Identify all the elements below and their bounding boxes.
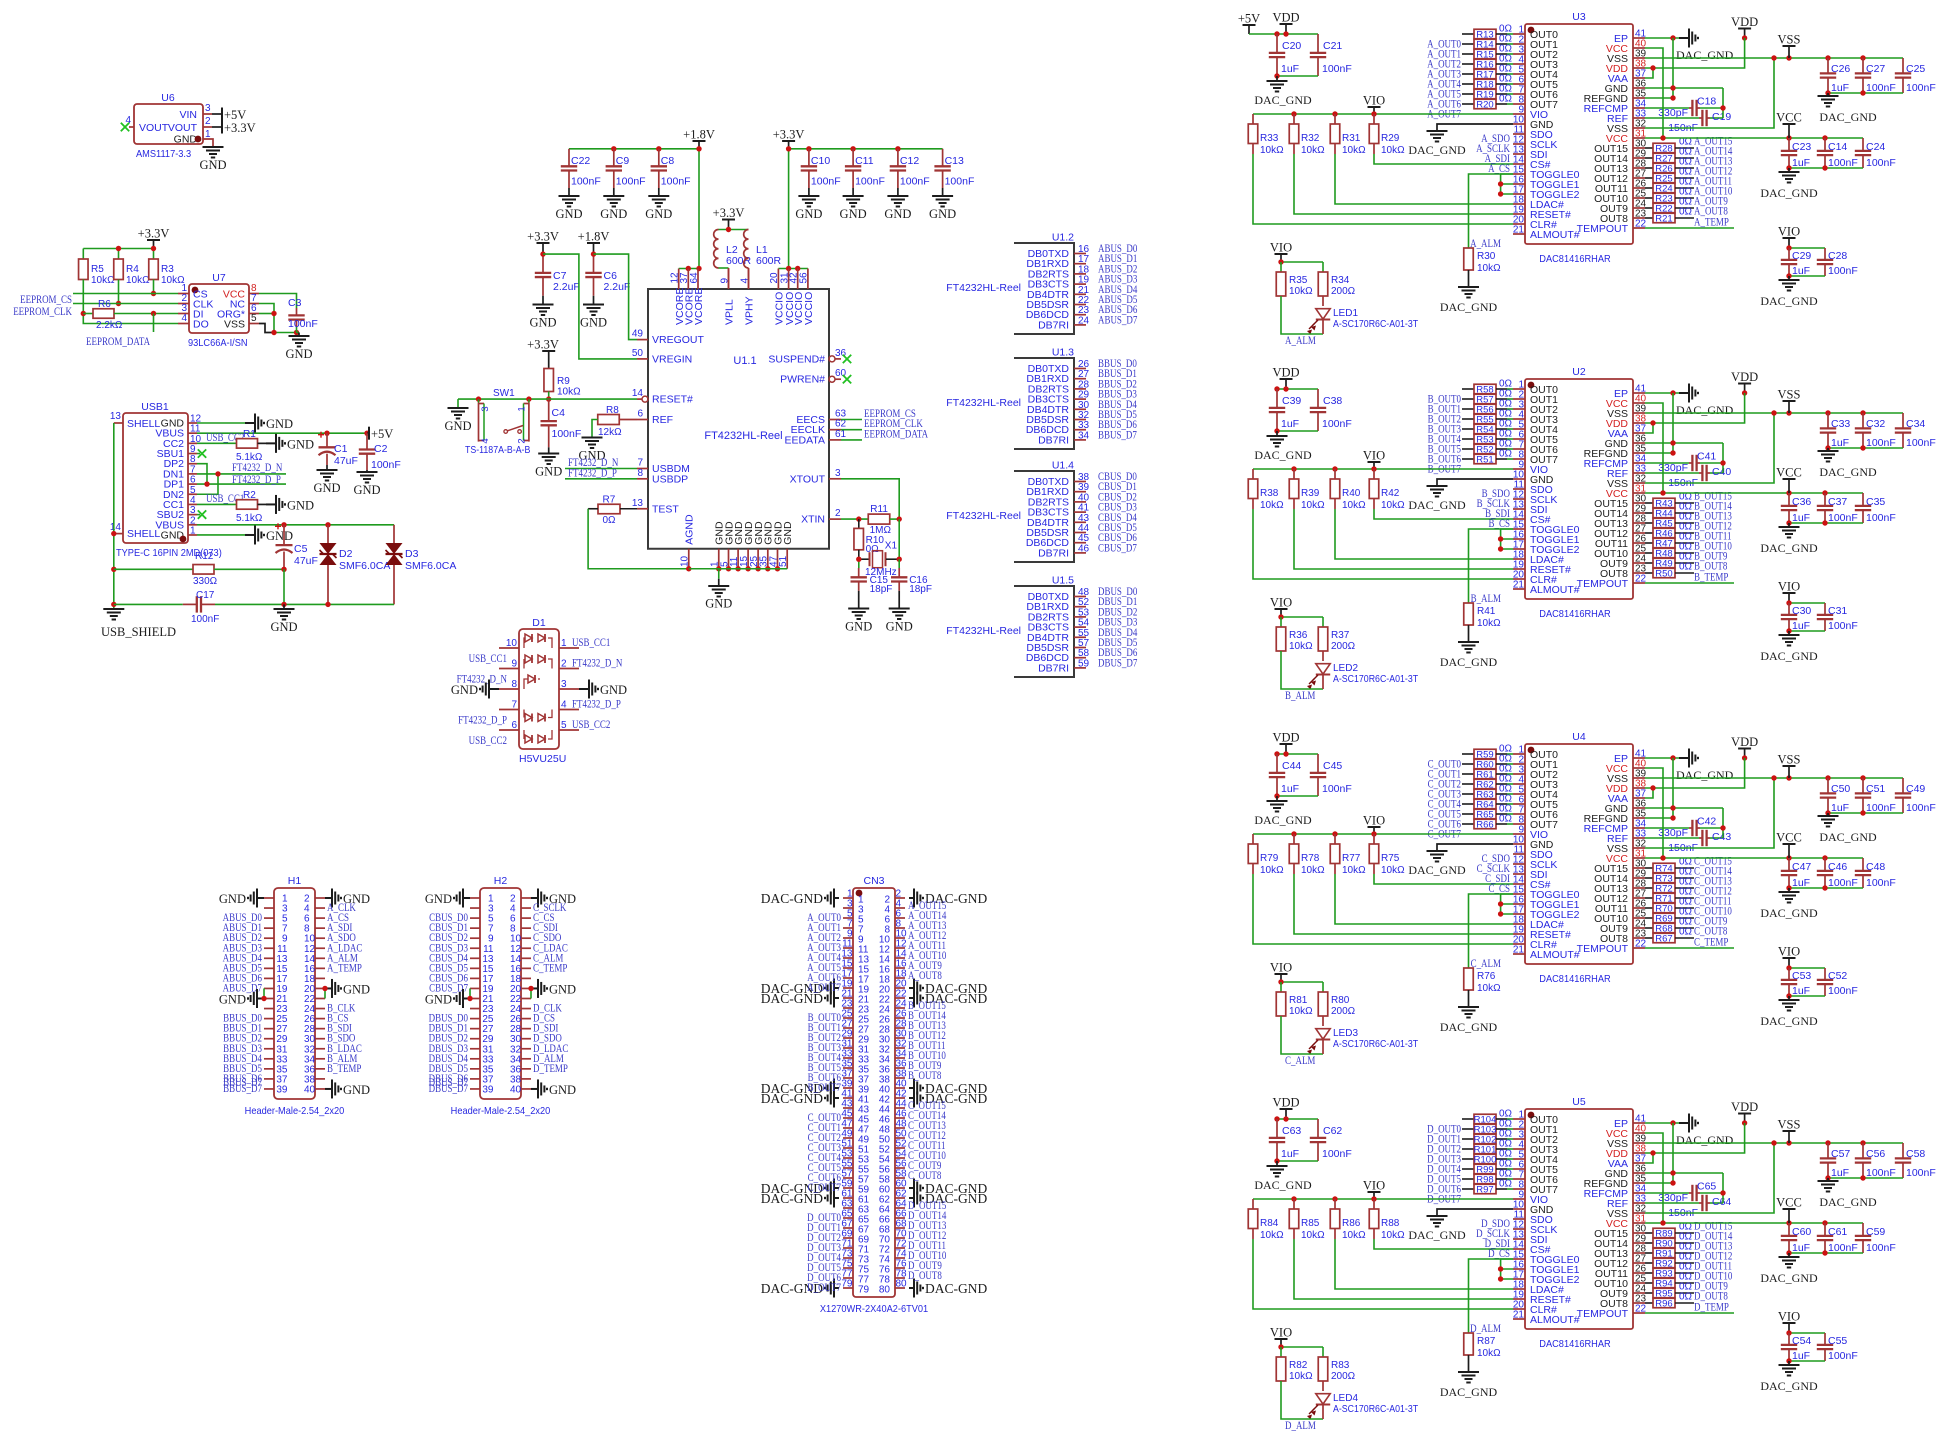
svg-text:GND: GND [929,207,956,221]
svg-text:DAC_GND: DAC_GND [1760,1014,1818,1028]
svg-text:DBUS_D7: DBUS_D7 [429,1077,469,1089]
svg-text:USB_CC1: USB_CC1 [572,637,611,649]
pin 15 GND bottom [739,521,755,569]
resistor R68 0ohm [1645,917,1694,935]
ground GND below U1.1 [708,586,729,597]
svg-text:DAC81416RHAR: DAC81416RHAR [1539,1338,1611,1350]
svg-text:DB7RI: DB7RI [1038,662,1069,674]
ground DAC_GND under vss caps [1818,96,1839,107]
wire led bottom [1281,1016,1323,1054]
svg-text:VSS: VSS [1778,33,1801,47]
svg-text:10kΩ: 10kΩ [1381,1230,1405,1241]
svg-text:EEDATA: EEDATA [785,434,825,446]
svg-text:U6: U6 [161,92,175,104]
resistor R46 0ohm [1645,522,1694,540]
capacitor C12 [890,149,930,196]
capacitor C37 100nF [1817,493,1858,524]
svg-text:LED2: LED2 [1333,663,1358,674]
wire R87 to gnd [1468,1355,1470,1372]
svg-text:22: 22 [1635,1304,1647,1315]
ground GND under C16 [889,609,910,620]
resistor R98 0ohm [1462,1169,1513,1186]
resistor R82 10k [1276,1347,1313,1382]
connector H2 Header-Male-2.54_2x20 [451,875,551,1117]
wire refcap vertical [1722,808,1724,838]
svg-text:GND: GND [549,1083,576,1097]
svg-text:C28: C28 [1828,250,1847,262]
wire VCC8 to C3 [259,294,297,309]
capacitor C5 polarized [275,523,318,569]
pin 49 VREGOUT left [632,329,705,347]
svg-text:GND: GND [535,465,562,479]
resistor R7 0ohm [598,495,620,527]
svg-text:100nF: 100nF [1322,783,1352,795]
wire bottom gnd rail [284,603,394,605]
ground flag SW1 [457,399,459,408]
ground GND at C3 [289,336,310,347]
wire vcc caps bottom [1789,522,1863,524]
svg-text:C25: C25 [1906,63,1925,75]
svg-text:4: 4 [480,438,491,443]
IC U3 DAC81416RHAR [1513,11,1647,265]
svg-text:59: 59 [1078,658,1090,669]
svg-text:DAC_GND: DAC_GND [1760,906,1818,920]
resistor R97 0ohm [1462,1179,1513,1196]
svg-text:GND: GND [266,417,293,431]
capacitor C4 [541,399,582,453]
ground GND under C7 [533,305,554,316]
svg-text:VIO: VIO [1363,94,1385,108]
power flag VIO right [1783,237,1796,239]
svg-text:C20: C20 [1282,40,1301,52]
wire VDD38/VAA [1645,393,1745,423]
capacitor C3 [288,297,318,330]
svg-text:1uF: 1uF [1281,1148,1299,1160]
wire R77 to pin [1334,864,1336,875]
svg-text:C59: C59 [1866,1226,1885,1238]
ground DAC_GND under vss caps [1818,816,1839,827]
svg-text:C33: C33 [1831,418,1850,430]
svg-text:+1.8V: +1.8V [578,230,610,244]
svg-text:FT4232HL-Reel: FT4232HL-Reel [704,430,782,442]
resistor R13 0ohm [1462,24,1513,41]
wire EECLK [841,429,862,431]
IC U1.4 FT4232HL section [946,460,1137,563]
capacitor C43 150nF [1645,830,1731,854]
wire VCCIO rail [778,268,808,270]
wire CS to R [1469,529,1514,603]
IC U1.5 FT4232HL section [946,575,1137,678]
svg-text:GND: GND [886,620,913,634]
svg-text:GND: GND [705,597,732,611]
svg-text:GND: GND [555,207,582,221]
svg-text:2.2kΩ: 2.2kΩ [96,320,123,331]
wire R7 to gnd rail [588,508,598,510]
wire to C16 [898,559,900,568]
svg-text:D_ALM: D_ALM [1470,1323,1501,1335]
capacitor C50 1uF [1820,778,1851,814]
svg-text:DAC_GND: DAC_GND [1440,1385,1498,1399]
svg-text:DAC_GND: DAC_GND [1408,498,1466,512]
resistor R87 10k [1464,1333,1501,1359]
ground GND under C8 [648,196,669,207]
capacitor C28 100nF [1817,248,1858,277]
resistor R56 0ohm [1462,399,1513,416]
svg-text:R31: R31 [1342,133,1361,144]
resistor R75 10k pullup [1369,834,1405,876]
resistor R78 10k pullup [1289,834,1325,876]
svg-text:10kΩ: 10kΩ [1477,618,1501,629]
svg-text:5: 5 [190,485,196,496]
resistor R88 10k pullup [1369,1199,1405,1241]
wire vss caps bottom [1828,447,1903,449]
svg-text:C47: C47 [1792,861,1811,873]
wire VSS rail [1645,777,1903,779]
capacitor C52 100nF [1817,968,1858,997]
ground flag DAC-GND CN3 right row 11 [909,989,923,1008]
capacitor C6 2.2uF [585,254,630,304]
svg-text:C63: C63 [1282,1125,1301,1137]
resistor R44 0ohm [1645,502,1694,520]
ground DAC_GND under vio caps [1779,1000,1800,1011]
no-connect X pin4 [121,123,129,131]
svg-text:3: 3 [190,505,196,516]
pin 14 RESET# left [632,388,693,406]
svg-text:R21: R21 [1655,214,1672,225]
wire EP to DAC_GND [1645,757,1679,759]
svg-text:U4: U4 [1572,731,1586,743]
ground DAC_GND under vio caps [1779,280,1800,291]
svg-text:VDD: VDD [1731,15,1758,29]
wire VCC net [1645,1133,1663,1223]
svg-text:R51: R51 [1476,455,1493,466]
svg-text:VIN: VIN [179,109,197,121]
ground flag GND H2 right row 20 [531,1079,547,1098]
svg-text:VDD: VDD [1731,370,1758,384]
svg-text:DAC_GND: DAC_GND [1440,300,1498,314]
svg-text:100nF: 100nF [616,176,646,188]
LED LED1 A-SC170R6C-A01-3T [1307,296,1418,335]
svg-text:1uF: 1uF [1281,63,1299,75]
resistor R64 0ohm [1462,794,1513,811]
svg-text:VIO: VIO [1363,814,1385,828]
wire R12 to C5 node [214,568,284,570]
ground GND under C11 [843,196,864,207]
svg-text:VIO: VIO [1363,1179,1385,1193]
ground flag GND H1 right row 10 [325,979,341,998]
svg-text:22: 22 [1635,939,1647,950]
wire vss caps bottom [1828,812,1903,814]
svg-text:DAC_GND: DAC_GND [1440,655,1498,669]
net label EEPROM_DATA [153,314,155,333]
svg-text:GND: GND [425,993,452,1007]
resistor R83 200ohm [1318,1347,1355,1382]
svg-text:100nF: 100nF [1828,265,1858,277]
power flag VDD right [1738,748,1751,750]
ground GND under C15 [848,609,869,620]
LED LED4 A-SC170R6C-A01-3T [1307,1381,1418,1420]
svg-text:C60: C60 [1792,1226,1811,1238]
ground flag GND H2 left row 11 [454,989,470,1008]
ground DAC_GND under vcc caps [1779,892,1800,903]
power flag VIO right [1783,592,1796,594]
svg-text:C1: C1 [334,443,348,455]
wire VIO rail to pin9 [1253,833,1513,835]
svg-text:TEMPOUT: TEMPOUT [1577,1308,1629,1320]
capacitor C27 100nF [1855,58,1896,94]
resistor R43 0ohm [1645,492,1694,510]
svg-text:3: 3 [480,406,491,411]
wire CS to R [1469,1259,1514,1333]
ground DAC_GND under vcc caps [1779,1257,1800,1268]
resistor R29 10k pullup [1369,114,1405,156]
svg-text:R42: R42 [1381,488,1400,499]
capacitor C57 1uF [1820,1143,1851,1179]
svg-text:C55: C55 [1828,1335,1847,1347]
svg-text:AGND: AGND [684,514,696,545]
svg-text:C34: C34 [1906,418,1925,430]
svg-text:FT4232_D_N: FT4232_D_N [232,462,283,474]
svg-text:10kΩ: 10kΩ [1289,1006,1313,1017]
wire gnd ties H1 [324,988,326,998]
svg-text:D1: D1 [532,617,546,629]
power flag +5V [1243,24,1256,26]
wire VCC rail [1645,137,1863,139]
svg-text:GND: GND [529,316,556,330]
svg-text:GND: GND [270,620,297,634]
svg-text:VSS: VSS [224,319,245,331]
wire R40 to pin [1334,499,1336,510]
svg-text:100nF: 100nF [1866,1242,1896,1254]
svg-text:C12: C12 [900,155,919,167]
wire EECS [841,419,862,421]
no-connect X SBU1 [197,453,200,455]
resistor R2 [197,490,263,524]
svg-text:R40: R40 [1342,488,1361,499]
resistor R16 0ohm [1462,54,1513,71]
svg-text:R8: R8 [606,405,619,416]
svg-text:21: 21 [1513,225,1525,236]
svg-text:C_ALM: C_ALM [1471,958,1501,970]
power flag VDD right [1738,383,1751,385]
svg-text:FT4232_D_P: FT4232_D_P [458,715,507,727]
capacitor C35 100nF [1855,493,1896,524]
svg-text:13: 13 [632,498,644,509]
wire VCC rail [1645,857,1863,859]
resistor R24 0ohm [1645,177,1694,195]
resistor R69 0ohm [1645,907,1694,925]
svg-text:GND: GND [425,892,452,906]
capacitor C60 1uF [1781,1223,1812,1254]
svg-text:C65: C65 [1697,1181,1716,1193]
pin 1 GND bottom [710,521,726,569]
svg-text:3: 3 [835,468,841,479]
svg-text:4: 4 [190,495,196,506]
ground flag DAC-GND CN3 left row 31 [825,1189,839,1208]
svg-text:VDD: VDD [1272,1096,1299,1110]
IC U6 AMS1117-3.3 [125,92,211,160]
capacitor C2 [359,433,401,471]
svg-text:C10: C10 [811,155,830,167]
svg-text:40: 40 [510,1084,522,1095]
svg-text:93LC66A-I/SN: 93LC66A-I/SN [188,337,248,349]
svg-text:C48: C48 [1866,861,1885,873]
wire to C15 [858,559,860,568]
svg-text:1: 1 [561,638,567,649]
svg-text:2: 2 [561,659,567,670]
resistor R3 [149,259,185,286]
wire VDD38/VAA [1645,758,1745,788]
svg-text:DAC_GND: DAC_GND [1760,1379,1818,1393]
svg-text:GND: GND [840,207,867,221]
svg-text:VIO: VIO [1270,241,1292,255]
wire R31 to pin [1334,144,1336,155]
resistor R1 [197,429,263,463]
power flag VDD right [1738,1113,1751,1115]
svg-text:DB7RI: DB7RI [1038,434,1069,446]
svg-text:C49: C49 [1906,783,1925,795]
svg-text:R36: R36 [1289,630,1308,641]
svg-text:200Ω: 200Ω [1331,641,1356,652]
power flag VDD topleft [1280,1108,1293,1110]
svg-text:R50: R50 [1655,569,1672,580]
svg-text:GND: GND [353,483,380,497]
pin 64 VCORE top [689,269,705,326]
svg-text:100nF: 100nF [811,176,841,188]
capacitor C23 1uF [1781,138,1812,169]
ground flag DAC-GND CN3 left row 1 [825,889,839,908]
svg-text:R3: R3 [161,264,174,275]
svg-text:VPLL: VPLL [724,299,736,325]
svg-text:FT4232HL-Reel: FT4232HL-Reel [946,397,1021,409]
resistor R45 0ohm [1645,512,1694,530]
wire DI row [114,313,178,315]
resistor R50 0ohm [1645,562,1694,580]
svg-text:100nF: 100nF [1906,82,1936,94]
svg-text:R39: R39 [1301,488,1320,499]
svg-text:46: 46 [1078,543,1090,554]
svg-text:24: 24 [1078,315,1090,326]
resistor R15 0ohm [1462,44,1513,61]
wire EEDATA [841,439,862,441]
svg-text:LED1: LED1 [1333,308,1358,319]
resistor R92 0ohm [1645,1252,1694,1270]
wire VCC rail [1645,1222,1863,1224]
capacitor C49 100nF [1895,778,1936,814]
capacitor C56 100nF [1855,1143,1896,1179]
svg-text:R35: R35 [1289,275,1308,286]
svg-text:DAC_GND: DAC_GND [1760,186,1818,200]
wire led bottom [1281,296,1323,334]
svg-text:2: 2 [835,508,841,519]
power flag VIO pullups [1368,106,1381,108]
svg-text:B_TEMP: B_TEMP [327,1063,361,1075]
diode D3 TVS SMF6.0CA [386,525,457,605]
IC U1.3 FT4232HL section [946,347,1137,450]
net label C_TEMP [1645,947,1734,949]
svg-text:4: 4 [125,115,131,126]
resistor R37 200ohm [1318,617,1355,652]
svg-text:C38: C38 [1323,395,1342,407]
svg-text:VDD: VDD [1272,366,1299,380]
ground GND under C22 [559,196,580,207]
capacitor C44 1uF [1269,754,1302,796]
svg-text:10kΩ: 10kΩ [1301,145,1325,156]
svg-text:DAC_GND: DAC_GND [1760,1271,1818,1285]
svg-text:DAC_GND: DAC_GND [1408,1228,1466,1242]
resistor R14 0ohm [1462,34,1513,51]
svg-text:+3.3V: +3.3V [138,227,170,241]
svg-text:R88: R88 [1381,1218,1400,1229]
capacitor C58 100nF [1895,1143,1936,1179]
svg-text:VCC: VCC [1776,831,1802,845]
wire toggle vertical [1501,529,1513,539]
svg-text:DAC_GND: DAC_GND [1676,403,1734,417]
power flag VDD topleft [1280,378,1293,380]
ground DAC_GND under R41 [1458,642,1479,653]
svg-text:R83: R83 [1331,1360,1350,1371]
resistor R95 0ohm [1645,1282,1694,1300]
svg-text:9: 9 [719,278,730,284]
wire VCC net [1645,48,1663,138]
capacitor C64 150nF [1645,1195,1731,1219]
svg-text:FT4232_D_P: FT4232_D_P [572,699,621,711]
svg-text:VIO: VIO [1270,596,1292,610]
svg-text:R2: R2 [243,490,256,501]
svg-text:C31: C31 [1828,605,1847,617]
resistor R65 0ohm [1462,804,1513,821]
svg-text:C4: C4 [552,407,566,419]
wire led rail [1281,981,1323,983]
svg-text:C5: C5 [294,543,308,555]
resistor R86 10k pullup [1330,1199,1366,1241]
ground GND under C9 [603,196,624,207]
svg-text:D3: D3 [405,548,419,560]
wire CS to R [1469,174,1514,248]
power flag VSS [1783,400,1796,402]
wire U6 pins [203,113,212,115]
wire VSS net [1645,778,1774,848]
svg-text:DAC_GND: DAC_GND [1760,649,1818,663]
ground DAC_GND under vdd caps [1267,1166,1288,1177]
svg-text:+1.8V: +1.8V [683,128,715,142]
svg-text:VCC: VCC [1776,1196,1802,1210]
power flag VIO led [1275,253,1288,255]
resistor R36 10k [1276,617,1313,652]
wire +3.3V rail to pullups [83,248,153,250]
svg-text:SMF6.0CA: SMF6.0CA [339,560,390,572]
power flag +3.3V above R3 [147,239,160,241]
resistor R91 0ohm [1645,1242,1694,1260]
svg-text:VIO: VIO [1270,1326,1292,1340]
capacitor C20 1uF [1269,34,1302,76]
resistor R26 0ohm [1645,157,1694,175]
ground flag GND pin12 [245,414,264,433]
svg-text:+5V: +5V [224,108,246,122]
svg-text:40: 40 [304,1084,316,1095]
wire R84 to pin [1252,1229,1254,1240]
resistor R42 10k pullup [1369,469,1405,511]
svg-text:22: 22 [1635,574,1647,585]
svg-text:C23: C23 [1792,141,1811,153]
svg-text:100nF: 100nF [900,176,930,188]
wire R42 to pin [1373,499,1375,510]
svg-text:TS-1187A-B-A-B: TS-1187A-B-A-B [465,445,531,456]
ground flag GND H2 left row 1 [454,889,470,908]
capacitor C1 polarized [318,432,358,467]
svg-text:100nF: 100nF [1866,512,1896,524]
ground flag DAC-GND CN3 right row 20 [909,1079,923,1098]
